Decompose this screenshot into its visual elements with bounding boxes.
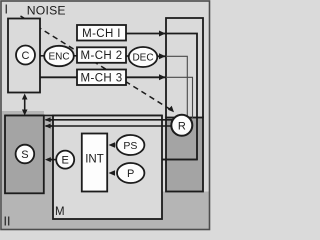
svg-text:PS: PS <box>123 140 137 152</box>
svg-text:ENC: ENC <box>48 52 69 63</box>
svg-text:M-CH I: M-CH I <box>82 28 121 40</box>
svg-text:M-CH 3: M-CH 3 <box>80 72 122 84</box>
svg-text:INT: INT <box>85 154 104 166</box>
svg-text:E: E <box>62 154 69 166</box>
svg-text:S: S <box>21 149 28 161</box>
svg-text:M: M <box>55 206 65 218</box>
svg-text:DEC: DEC <box>132 53 153 64</box>
svg-text:M-CH 2: M-CH 2 <box>80 50 122 62</box>
svg-text:P: P <box>127 168 134 180</box>
svg-text:NOISE: NOISE <box>27 3 66 17</box>
svg-text:I: I <box>5 3 8 17</box>
svg-text:R: R <box>178 120 186 132</box>
svg-text:II: II <box>4 215 11 229</box>
svg-text:C: C <box>22 50 30 62</box>
